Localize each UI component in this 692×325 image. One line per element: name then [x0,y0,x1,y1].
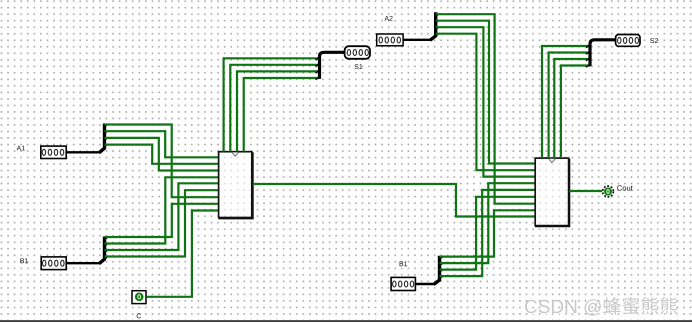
wire C to U1 pin9 [146,211,218,297]
bus S1 (vertical to box) [320,52,345,79]
wire carry U1 to U2 pin9 [253,184,535,217]
wire A2 bit0 to U2 pin7 [436,14,535,204]
display S1 label [355,64,363,69]
wire A2 box to bus [403,39,430,41]
connector A2 label [384,16,392,21]
wire U1 S-out bit1 [230,65,319,152]
wire B1r bit3 to U2 pin5 [440,190,536,276]
bus A2 (vertical with diagonal entry) [430,12,436,40]
connector B1 (logic state box, left) [41,257,66,270]
wire B1 bit3 to U1 pin6 [105,190,219,256]
display S2 (rounded logic display box) [616,35,640,47]
display S1 (rounded logic display box) [345,46,370,59]
bus B1 right (vertical with diagonal entry) [434,256,440,285]
connector B1 (logic state box, right) [391,277,415,290]
op-amp U1 (4-bit adder chip 1) [218,152,252,219]
wire U2 S-out bit0 (top pin to S2 row) [542,46,590,158]
connector A2 (logic state box) [377,34,403,46]
bus entry ticks A2 [436,14,439,36]
wire B1 box to bus [66,262,99,264]
bus B1 left (vertical with diagonal entry) [99,237,105,264]
wire A2 bit2 to U2 pin3 [436,27,535,176]
op-amp U2 (4-bit adder chip 2) [535,158,569,226]
wire A1 box to bus [66,151,99,153]
wire U1 S-out bit0 (top pin to S1 row) [224,58,320,151]
wire A1 bit2 to U1 pin3 [105,138,219,171]
wire B1r bit1 to U2 pin4 [440,183,536,263]
wire B1r bit2 to U2 pin6 [440,197,536,270]
bus entry ticks S1 [316,58,319,80]
connector B1 label (left) [20,258,28,263]
wire U2 S-out bit3 [561,66,590,159]
wire B1 bit2 to U1 pin5 [105,183,219,250]
connector B1 label (right) [400,261,408,266]
wire B1 bit1 to U1 pin4 [105,177,219,243]
wire B1r bit0 to U2 pin8 [440,210,536,256]
bus entry ticks A1 [105,125,108,147]
wire A2 bit3 to U2 pin2 [436,34,535,171]
bus entry ticks B1 right [440,257,443,279]
bottom border line [0,320,692,322]
connector A1 (logic state box) [41,146,66,158]
wire U2 carry out to Cout probe [569,190,602,192]
bus entry ticks B1 [105,238,108,259]
bus A1 (vertical with diagonal entry) [99,124,105,153]
probe Cout label [617,185,633,190]
connector A1 label [17,146,25,151]
bus entry ticks S2 [586,46,589,67]
connector C label [137,313,141,318]
wire B1 box to bus [415,283,434,285]
wire U1 S-out bit3 [244,78,320,152]
wire B1 bit0 to U1 pin8 [105,204,219,237]
wire A1 bit0 to U1 pin7 [105,125,219,198]
svg-text:CSDN @蜂蜜熊熊: CSDN @蜂蜜熊熊 [524,296,678,318]
wire U1 S-out bit2 [237,71,320,151]
wire A2 bit1 to U2 pin1 [436,21,535,164]
wire U2 S-out bit1 [549,53,590,159]
wire A1 bit1 to U1 pin1 [105,131,219,157]
bus S2 (vertical to box) [590,40,616,67]
probe Cout (logic probe circle) [603,186,614,197]
display S2 label [650,38,658,43]
wire U2 S-out bit2 [554,59,590,158]
wire A1 bit3 to U1 pin2 [105,145,219,164]
logic state C (box with green state dot) [132,291,146,304]
